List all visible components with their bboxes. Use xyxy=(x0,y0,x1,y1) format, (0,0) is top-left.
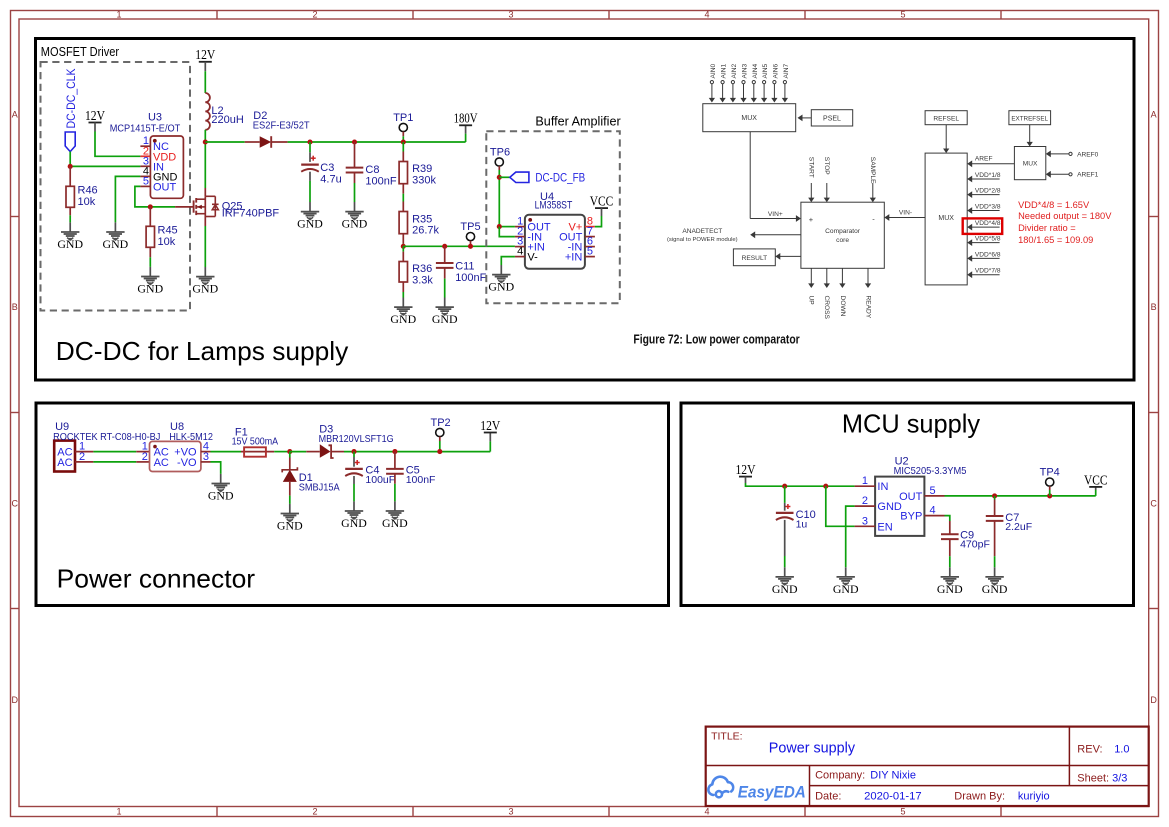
svg-text:VDD*4/8 = 1.65V: VDD*4/8 = 1.65V xyxy=(1018,200,1090,210)
svg-text:EasyEDA: EasyEDA xyxy=(738,782,806,801)
svg-text:AC: AC xyxy=(57,457,72,469)
svg-text:VDD*7/8: VDD*7/8 xyxy=(975,268,1001,275)
svg-text:3: 3 xyxy=(203,451,209,463)
svg-text:5: 5 xyxy=(930,485,936,497)
svg-text:VCC: VCC xyxy=(590,194,614,209)
svg-text:D: D xyxy=(11,695,18,705)
svg-text:DC-DC_FB: DC-DC_FB xyxy=(535,171,585,185)
svg-text:MUX: MUX xyxy=(1023,161,1038,168)
svg-text:AREF: AREF xyxy=(975,156,993,163)
svg-text:1u: 1u xyxy=(796,518,808,530)
svg-text:GND: GND xyxy=(57,237,83,251)
svg-text:AREF1: AREF1 xyxy=(1077,172,1099,179)
svg-text:VDD*1/8: VDD*1/8 xyxy=(975,172,1001,179)
svg-text:Power connector: Power connector xyxy=(57,564,256,594)
svg-text:MCP1415T-E/OT: MCP1415T-E/OT xyxy=(110,123,181,135)
svg-text:B: B xyxy=(1151,302,1157,312)
svg-text:5: 5 xyxy=(143,175,149,187)
svg-text:1.0: 1.0 xyxy=(1114,744,1129,756)
svg-text:RESULT: RESULT xyxy=(742,255,768,262)
svg-text:GND: GND xyxy=(297,217,323,231)
svg-text:UP: UP xyxy=(808,296,815,306)
svg-text:GND: GND xyxy=(772,582,798,596)
svg-text:STOP: STOP xyxy=(823,157,830,175)
svg-text:AIN3: AIN3 xyxy=(742,64,749,79)
svg-text:VDD*5/8: VDD*5/8 xyxy=(975,236,1001,243)
svg-text:Figure 72: Low power comparato: Figure 72: Low power comparator xyxy=(633,333,799,347)
svg-text:2.2uF: 2.2uF xyxy=(1005,521,1032,533)
svg-text:Divider ratio =: Divider ratio = xyxy=(1018,223,1076,233)
svg-text:180/1.65 = 109.09: 180/1.65 = 109.09 xyxy=(1018,235,1093,245)
svg-text:2: 2 xyxy=(312,807,317,817)
svg-text:-VO: -VO xyxy=(177,457,197,469)
svg-text:SMBJ15A: SMBJ15A xyxy=(299,482,340,494)
svg-text:R46: R46 xyxy=(78,185,98,197)
svg-text:4: 4 xyxy=(517,246,523,258)
svg-text:VDD*2/8: VDD*2/8 xyxy=(975,188,1001,195)
svg-text:REFSEL: REFSEL xyxy=(933,115,959,122)
svg-text:OUT: OUT xyxy=(153,181,177,193)
svg-text:330k: 330k xyxy=(412,174,436,186)
svg-text:R39: R39 xyxy=(412,163,432,175)
svg-text:TP4: TP4 xyxy=(1040,467,1060,479)
svg-text:2: 2 xyxy=(142,451,148,463)
svg-text:470pF: 470pF xyxy=(960,539,990,551)
svg-text:GND: GND xyxy=(103,237,129,251)
svg-text:DC-DC_CLK: DC-DC_CLK xyxy=(64,69,78,129)
svg-text:START: START xyxy=(808,157,815,178)
svg-text:AIN4: AIN4 xyxy=(752,64,759,79)
svg-text:TP2: TP2 xyxy=(431,417,451,429)
svg-text:LM358ST: LM358ST xyxy=(535,200,573,212)
svg-text:R45: R45 xyxy=(158,225,178,237)
svg-text:REV:: REV: xyxy=(1077,744,1102,756)
svg-text:A: A xyxy=(12,110,18,120)
svg-text:2: 2 xyxy=(312,10,317,20)
svg-text:GND: GND xyxy=(390,312,416,326)
svg-text:15V 500mA: 15V 500mA xyxy=(232,436,279,448)
svg-text:100uF: 100uF xyxy=(365,474,395,486)
svg-text:Buffer Amplifier: Buffer Amplifier xyxy=(535,115,620,129)
svg-text:VCC: VCC xyxy=(1084,472,1108,487)
svg-text:TP1: TP1 xyxy=(393,112,413,124)
svg-text:12V: 12V xyxy=(85,108,105,123)
svg-text:MIC5205-3.3YM5: MIC5205-3.3YM5 xyxy=(894,465,967,477)
svg-text:EN: EN xyxy=(877,521,892,533)
svg-text:AC: AC xyxy=(154,457,169,469)
svg-text:GND: GND xyxy=(208,489,234,503)
svg-text:AIN1: AIN1 xyxy=(721,64,728,79)
svg-text:5: 5 xyxy=(587,246,593,258)
svg-text:AIN7: AIN7 xyxy=(783,64,790,79)
svg-text:C: C xyxy=(11,499,18,509)
svg-text:MUX: MUX xyxy=(938,215,954,222)
svg-text:IRF740PBF: IRF740PBF xyxy=(222,208,280,220)
svg-text:MCU supply: MCU supply xyxy=(842,409,980,439)
svg-text:MBR120VLSFT1G: MBR120VLSFT1G xyxy=(319,433,394,445)
svg-text:Power supply: Power supply xyxy=(769,741,856,757)
svg-text:GND: GND xyxy=(341,516,367,530)
svg-text:V-: V- xyxy=(527,252,538,264)
svg-text:Comparator: Comparator xyxy=(825,228,861,235)
svg-text:ANADETECT: ANADETECT xyxy=(682,228,722,235)
svg-text:GND: GND xyxy=(137,282,163,296)
svg-text:TITLE:: TITLE: xyxy=(711,731,743,743)
svg-text:B: B xyxy=(12,302,18,312)
svg-text:12V: 12V xyxy=(480,418,500,433)
svg-text:1: 1 xyxy=(862,475,868,487)
svg-text:GND: GND xyxy=(982,582,1008,596)
svg-text:TP6: TP6 xyxy=(490,147,510,159)
svg-text:DIY Nixie: DIY Nixie xyxy=(870,770,916,782)
svg-text:3: 3 xyxy=(862,515,868,527)
svg-text:VDD*6/8: VDD*6/8 xyxy=(975,251,1001,258)
svg-text:2: 2 xyxy=(862,495,868,507)
svg-text:1: 1 xyxy=(116,807,121,817)
svg-text:4: 4 xyxy=(930,505,936,517)
svg-text:26.7k: 26.7k xyxy=(412,224,439,236)
svg-text:MOSFET Driver: MOSFET Driver xyxy=(41,44,120,59)
svg-text:+: + xyxy=(809,215,814,224)
svg-text:IN: IN xyxy=(877,481,888,493)
svg-text:3: 3 xyxy=(508,10,513,20)
svg-text:core: core xyxy=(836,237,849,244)
svg-text:C: C xyxy=(1150,499,1157,509)
svg-text:GND: GND xyxy=(833,582,859,596)
svg-text:+IN: +IN xyxy=(565,252,582,264)
svg-text:1: 1 xyxy=(116,10,121,20)
svg-text:3: 3 xyxy=(508,807,513,817)
svg-text:GND: GND xyxy=(382,516,408,530)
svg-text:C3: C3 xyxy=(320,162,334,174)
svg-text:C11: C11 xyxy=(455,261,474,273)
svg-text:3.3k: 3.3k xyxy=(412,274,433,286)
svg-text:(signal to POWER module): (signal to POWER module) xyxy=(667,237,738,243)
svg-text:Date:: Date: xyxy=(815,791,841,803)
svg-text:4: 4 xyxy=(704,10,709,20)
svg-text:2: 2 xyxy=(79,451,85,463)
svg-text:12V: 12V xyxy=(195,47,215,62)
svg-text:5: 5 xyxy=(900,807,905,817)
svg-text:kuriyio: kuriyio xyxy=(1018,791,1050,803)
svg-text:10k: 10k xyxy=(78,196,96,208)
svg-text:GND: GND xyxy=(488,280,514,294)
svg-text:TP5: TP5 xyxy=(460,221,480,233)
svg-text:3/3: 3/3 xyxy=(1112,772,1127,784)
svg-text:R36: R36 xyxy=(412,263,432,275)
svg-text:DC-DC for Lamps supply: DC-DC for Lamps supply xyxy=(56,336,349,366)
svg-text:AIN2: AIN2 xyxy=(731,64,738,79)
svg-text:AIN0: AIN0 xyxy=(710,64,717,79)
svg-text:10k: 10k xyxy=(158,236,176,248)
svg-text:180V: 180V xyxy=(454,111,478,126)
svg-text:Sheet:: Sheet: xyxy=(1077,772,1109,784)
svg-text:AREF0: AREF0 xyxy=(1077,151,1099,158)
svg-text:4: 4 xyxy=(704,807,709,817)
svg-text:GND: GND xyxy=(432,312,458,326)
svg-text:A: A xyxy=(1151,110,1157,120)
svg-text:GND: GND xyxy=(342,217,368,231)
svg-text:PSEL: PSEL xyxy=(823,115,841,122)
svg-text:MUX: MUX xyxy=(741,115,757,122)
svg-text:D: D xyxy=(1150,695,1157,705)
svg-text:C8: C8 xyxy=(365,164,379,176)
svg-text:GND: GND xyxy=(192,282,218,296)
svg-text:AIN6: AIN6 xyxy=(772,64,779,79)
svg-text:ES2F-E3/52T: ES2F-E3/52T xyxy=(253,120,311,132)
svg-text:VIN+: VIN+ xyxy=(768,211,783,218)
svg-text:100nF: 100nF xyxy=(406,474,436,486)
svg-text:GND: GND xyxy=(937,582,963,596)
svg-text:2020-01-17: 2020-01-17 xyxy=(864,791,922,803)
svg-text:4.7u: 4.7u xyxy=(320,173,341,185)
svg-text:GND: GND xyxy=(277,519,303,533)
svg-text:Needed output = 180V: Needed output = 180V xyxy=(1018,211,1112,221)
svg-text:Drawn By:: Drawn By: xyxy=(954,791,1005,803)
svg-text:100nF: 100nF xyxy=(455,272,486,284)
svg-text:VDD*3/8: VDD*3/8 xyxy=(975,204,1001,211)
svg-text:OUT: OUT xyxy=(899,491,923,503)
svg-text:DOWN: DOWN xyxy=(839,296,846,317)
svg-text:5: 5 xyxy=(900,10,905,20)
svg-text:12V: 12V xyxy=(736,462,756,477)
svg-text:READY: READY xyxy=(864,296,871,319)
svg-text:100nF: 100nF xyxy=(365,176,396,188)
svg-text:VDD*4/8: VDD*4/8 xyxy=(975,220,1001,227)
svg-text:EXTREFSEL: EXTREFSEL xyxy=(1011,115,1048,122)
svg-text:VIN-: VIN- xyxy=(899,209,912,216)
svg-text:CROSS: CROSS xyxy=(823,296,830,320)
svg-text:BYP: BYP xyxy=(900,511,922,523)
svg-text:220uH: 220uH xyxy=(211,114,243,126)
svg-text:AIN5: AIN5 xyxy=(762,64,769,79)
svg-text:SAMPLE: SAMPLE xyxy=(869,157,876,184)
svg-text:Company:: Company: xyxy=(815,770,865,782)
